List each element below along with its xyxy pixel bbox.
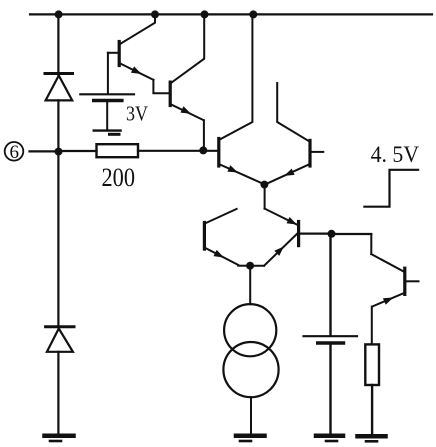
transistor Q5	[204, 223, 250, 266]
waveform: 4.5V step	[364, 170, 418, 207]
junction dot: rail / Q1 collector	[151, 10, 159, 18]
battery B2	[304, 336, 358, 343]
wire: node D to Q7	[332, 233, 372, 235]
junction dot: node B (Q3/Q4 emitters)	[260, 181, 268, 189]
junction dot: node 6 / left column	[55, 148, 63, 156]
junction dot: node C (Q5/Q6 emitters)	[246, 262, 254, 270]
transistor Q1	[108, 14, 170, 93]
svg-text:200: 200	[102, 163, 136, 192]
diode D2	[46, 327, 74, 352]
wire: battery to ground	[329, 345, 331, 434]
junction dot: node D (Q6 base / battery)	[328, 230, 336, 238]
transistor Q3	[219, 14, 263, 183]
svg-text:6: 6	[9, 142, 19, 163]
wire: node A to Q3 base	[203, 150, 218, 152]
junction dot: rail / Q3 collector	[249, 10, 257, 18]
wire: node C to current source	[249, 266, 251, 305]
wire: left column upper segment	[57, 14, 59, 75]
resistor R1 (200 ohm)	[97, 144, 139, 157]
wire: left column middle segment	[57, 100, 59, 327]
junction dot: rail / left column	[55, 10, 63, 18]
wire: Q1 base lead down	[107, 53, 109, 94]
ground (R2)	[358, 436, 386, 441]
wire: Q5 collector stub	[205, 209, 237, 224]
wire: node 6 to resistor	[58, 150, 96, 152]
value label 4.5V	[371, 142, 420, 167]
wire: node D down to battery	[329, 234, 331, 335]
value label 3V	[126, 102, 148, 126]
transistor Q6	[250, 217, 331, 266]
current source I1	[223, 304, 278, 397]
wire: node B to Q6	[265, 209, 298, 225]
svg-text:4. 5V: 4. 5V	[371, 142, 420, 167]
svg-text:3V: 3V	[126, 102, 148, 126]
transistor Q7	[371, 254, 418, 344]
wire: current source to ground	[250, 397, 252, 433]
junction dot: node A (Q2 emitter / Q3 base)	[199, 146, 207, 154]
value label 200	[102, 163, 136, 192]
ground (current source)	[236, 436, 265, 441]
terminal node 6 (circled label)	[5, 142, 24, 163]
junction dot: rail / Q2 collector	[201, 10, 209, 18]
ground (battery)	[316, 436, 343, 441]
ground (left column)	[45, 436, 74, 441]
wire: resistor R2 to ground	[371, 385, 373, 434]
diode D1	[45, 74, 73, 101]
wire: node B down	[264, 185, 266, 209]
battery B1 (3V)	[80, 94, 134, 134]
transistor Q4	[266, 83, 323, 184]
wire: left column lower segment	[57, 352, 59, 434]
wire: node D branch down	[370, 234, 372, 254]
wire: resistor to node A	[138, 150, 203, 152]
wire: +V top rail	[30, 13, 432, 15]
resistor R2	[365, 344, 379, 385]
transistor Q2	[170, 14, 204, 149]
wire: terminal 6 lead	[30, 150, 59, 152]
